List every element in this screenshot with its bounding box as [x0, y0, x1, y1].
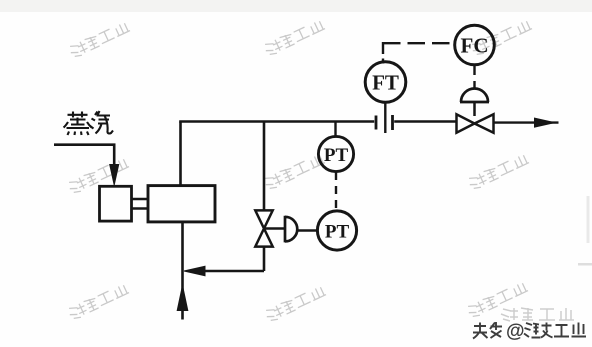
- signal wire PT to PT (dashed): [335, 172, 337, 211]
- bottom feed line: [181, 279, 184, 320]
- svg-text:FC: FC: [461, 34, 489, 58]
- ejector box: [100, 186, 132, 221]
- svg-text:@: @: [506, 321, 525, 342]
- watermark row3 left: [67, 283, 130, 321]
- return arrow into riser: [184, 266, 205, 276]
- regulator actuator diaphragm (sideways): [285, 216, 297, 243]
- watermark row2 left: [67, 157, 130, 195]
- FT tap stem: [384, 102, 386, 133]
- svg-text:PT: PT: [324, 145, 349, 166]
- transmitter FT: [365, 62, 406, 103]
- controller FC: [455, 25, 495, 65]
- valve actuator link: [264, 227, 285, 229]
- regulator pilot PT lower: [317, 211, 356, 250]
- small scan mark right edge: [578, 263, 592, 266]
- svg-text:PT: PT: [325, 222, 350, 243]
- main process header: [179, 120, 374, 123]
- wire vessel bottom drop: [181, 222, 184, 279]
- orifice flange FE taps: [376, 115, 393, 130]
- label steam 蒸汽: [64, 111, 114, 135]
- watermark row2 mid: [263, 153, 326, 191]
- signal wire FC to valve actuator (dashed): [473, 65, 475, 88]
- footer credit 头条@流程工业: [473, 322, 502, 339]
- watermark ghost horizontal bottom right: [501, 308, 574, 321]
- tap stem to PT upper: [334, 122, 336, 138]
- steam arrow down into ejector: [110, 165, 119, 186]
- control valve actuator diaphragm: [460, 89, 489, 103]
- watermark row1 right: [470, 19, 533, 57]
- wire valve outlet down: [263, 247, 266, 271]
- pilot sensing line: [298, 229, 318, 231]
- wire bottom return to riser: [188, 270, 264, 273]
- control valve body: [457, 114, 494, 132]
- feed arrow up: [177, 286, 188, 311]
- svg-text:FT: FT: [372, 71, 399, 95]
- outlet arrow: [535, 118, 555, 127]
- wire bypass drop from header: [263, 122, 266, 211]
- valve stem: [473, 102, 476, 116]
- transmitter PT upper: [318, 136, 353, 171]
- watermark row3 mid: [264, 285, 327, 323]
- watermark row2 right: [467, 153, 530, 191]
- self-operated valve body (vertical): [255, 210, 272, 246]
- watermark row3 right: [466, 281, 529, 319]
- steam inlet pipe: [54, 143, 114, 168]
- watermark row1 mid: [263, 19, 326, 57]
- nozzle connector: [132, 199, 149, 209]
- wire riser from vessel top to main header: [179, 122, 182, 186]
- heater vessel box: [148, 186, 215, 222]
- watermark row1 left: [68, 21, 131, 59]
- signal wire FT to FC (dashed): [382, 42, 450, 64]
